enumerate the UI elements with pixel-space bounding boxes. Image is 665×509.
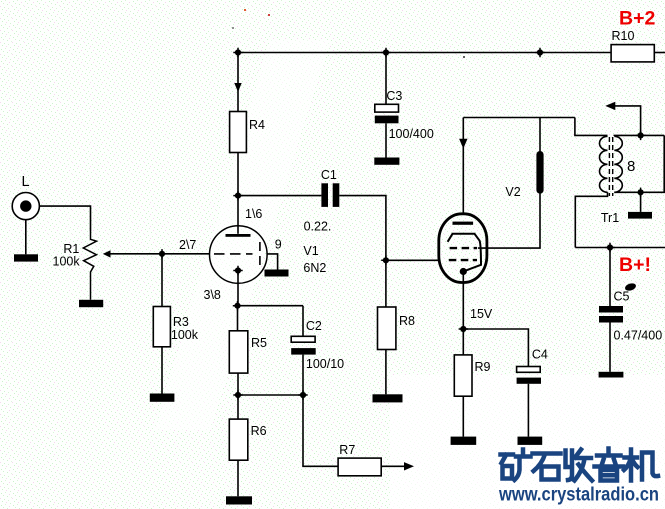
wire V2 plate rail bbox=[463, 117, 575, 119]
svg-text:V1: V1 bbox=[303, 244, 318, 258]
junction node V1 cathode bbox=[233, 266, 242, 275]
wire Tr1 primary top feed bbox=[575, 118, 608, 136]
arrow down to V2 plate bbox=[459, 139, 467, 149]
svg-text:C2: C2 bbox=[306, 319, 322, 333]
wire R3 to ground bbox=[161, 347, 163, 394]
arrow left at Tr1 bbox=[605, 102, 615, 110]
svg-text:R3: R3 bbox=[173, 315, 189, 329]
wire secondary ground stub bbox=[640, 192, 642, 212]
svg-text:C4: C4 bbox=[532, 348, 548, 362]
resistor R10 bbox=[611, 29, 654, 62]
svg-text:R5: R5 bbox=[251, 336, 267, 350]
wire C3 to ground bbox=[385, 123, 387, 157]
wire lower node row bbox=[238, 394, 304, 396]
svg-text:R6: R6 bbox=[251, 424, 267, 438]
junction node V2 cathode bbox=[459, 324, 468, 333]
svg-text:0.47/400: 0.47/400 bbox=[614, 329, 663, 343]
wire top rail right of R10 bbox=[654, 52, 665, 54]
svg-text:R7: R7 bbox=[339, 443, 355, 457]
junction node V2 grid tie bbox=[381, 256, 390, 265]
wire V1 plate lead bbox=[237, 196, 239, 234]
junction node secondary bottom bbox=[636, 188, 645, 197]
watermark crystalradio logo glyphs bbox=[501, 449, 659, 481]
capacitor C5 bbox=[599, 290, 662, 343]
wire cathode node to C4 bbox=[463, 329, 528, 367]
junction node R10 tap bbox=[535, 48, 544, 57]
junction node B+! C5 bbox=[605, 243, 614, 252]
V2 cathode dot bbox=[460, 268, 467, 275]
glyph shou bbox=[566, 450, 593, 481]
wire Tr1 secondary top bbox=[614, 134, 664, 137]
wire wiper to grid node bbox=[110, 253, 162, 255]
wire plate node to C1 bbox=[238, 195, 321, 197]
junction node C2-R7 bbox=[298, 390, 307, 399]
ground under C4 bbox=[518, 437, 543, 445]
tube V1 bbox=[179, 207, 282, 302]
svg-text:B+2: B+2 bbox=[619, 8, 655, 30]
ground Tr1 secondary bbox=[628, 212, 652, 219]
wire V2 plate lead bbox=[462, 118, 464, 214]
svg-text:R4: R4 bbox=[249, 118, 265, 132]
input jack L bbox=[12, 174, 39, 220]
wire C4 to ground bbox=[527, 384, 529, 437]
svg-text:V2: V2 bbox=[505, 185, 520, 199]
ground under C3 bbox=[374, 158, 399, 165]
V2 control grid dashed bbox=[449, 259, 477, 261]
ground under R1 bbox=[79, 300, 103, 307]
wire C2 top lead bbox=[302, 306, 304, 337]
wire screen bar to V2 bbox=[478, 194, 540, 249]
wire C5 top lead bbox=[609, 248, 611, 307]
ground under jack bbox=[14, 254, 38, 261]
ink blob near C5 bbox=[624, 282, 637, 292]
svg-text:C1: C1 bbox=[321, 168, 337, 182]
junction node R5-R6 bbox=[233, 390, 242, 399]
glyph yin bbox=[595, 449, 624, 481]
svg-text:Tr1: Tr1 bbox=[601, 211, 619, 225]
ground under R6 bbox=[226, 496, 252, 504]
svg-text:8: 8 bbox=[627, 158, 635, 175]
svg-text:www.crystalradio.cn: www.crystalradio.cn bbox=[498, 484, 659, 506]
ground under R3 bbox=[150, 394, 175, 402]
wire node to R7 bbox=[303, 395, 338, 466]
svg-text:C5: C5 bbox=[614, 290, 630, 304]
junction node cathode-R5 bbox=[233, 301, 242, 310]
junction node secondary top bbox=[636, 131, 645, 140]
svg-text:3\8: 3\8 bbox=[204, 288, 221, 302]
ground under R9 bbox=[451, 437, 477, 445]
white patch bottom right bbox=[390, 375, 665, 509]
wire R4 top feed bbox=[237, 53, 239, 112]
Tr1 primary winding bbox=[600, 136, 608, 192]
wire C5 bottom lead bbox=[609, 323, 611, 372]
wire Tr1 primary bottom bbox=[575, 192, 607, 247]
arrow R1 wiper bbox=[103, 250, 111, 257]
wire Tr1 secondary loop right bbox=[614, 135, 664, 192]
capacitor C3 bbox=[375, 89, 434, 141]
svg-text:C3: C3 bbox=[386, 89, 402, 103]
wire cathode node to C2 bbox=[238, 305, 304, 307]
resistor R9 bbox=[454, 355, 490, 396]
arrow right after R7 bbox=[404, 462, 414, 470]
screen grid bar bbox=[536, 151, 543, 194]
wire R8 to ground bbox=[385, 350, 387, 395]
wire cathode node to R9 bbox=[462, 329, 464, 355]
Tr1 secondary winding bbox=[614, 136, 622, 192]
glyph ji bbox=[624, 450, 658, 481]
wire top rail B+2 bbox=[238, 52, 611, 54]
V2 plate bar bbox=[453, 222, 474, 225]
wire grid node to R3 bbox=[161, 254, 163, 307]
glyph shi bbox=[533, 454, 561, 480]
arrow down to R4 bbox=[234, 83, 241, 92]
wire R4 bottom to plate node bbox=[237, 153, 239, 196]
ground V1 pin9 bbox=[265, 270, 289, 277]
wire C1 to R8 node bbox=[339, 196, 386, 307]
junction node C3 tap bbox=[381, 48, 390, 57]
wire pin 9 to ground bbox=[267, 254, 278, 270]
V2 screen grid dashed bbox=[450, 247, 478, 249]
resistor R5 bbox=[229, 331, 267, 373]
svg-text:15V: 15V bbox=[470, 307, 493, 321]
wire jack stem bbox=[25, 220, 27, 254]
svg-text:2\7: 2\7 bbox=[179, 238, 196, 252]
wire V2 cathode down bbox=[462, 272, 464, 330]
resistor R3 bbox=[153, 307, 198, 347]
svg-text:R10: R10 bbox=[612, 29, 635, 43]
resistor R4 bbox=[230, 112, 265, 153]
wire B+! rail bbox=[575, 247, 665, 249]
capacitor C4 bbox=[517, 348, 548, 384]
Tr1 core bbox=[608, 137, 610, 196]
svg-text:R8: R8 bbox=[399, 314, 415, 328]
wire screen bar top lead bbox=[539, 118, 541, 152]
glyph kuang bbox=[501, 450, 531, 481]
V2 suppressor chevron bbox=[448, 234, 481, 271]
svg-text:100/10: 100/10 bbox=[306, 357, 344, 371]
ground under C5 bbox=[599, 372, 624, 378]
transformer Tr1 bbox=[600, 136, 636, 225]
wire R9 to ground bbox=[462, 396, 464, 436]
svg-text:L: L bbox=[22, 174, 30, 190]
white streak overlay bbox=[155, 40, 330, 430]
svg-text:R9: R9 bbox=[475, 360, 491, 374]
wire R7 to arrow bbox=[381, 465, 404, 467]
svg-text:1\6: 1\6 bbox=[245, 207, 262, 221]
ground under R8 bbox=[373, 394, 403, 402]
svg-text:100/400: 100/400 bbox=[389, 127, 434, 141]
potentiometer R1 bbox=[53, 231, 97, 300]
wire V1 cathode down bbox=[237, 271, 239, 306]
junction node V1 plate bbox=[233, 191, 242, 200]
resistor R7 bbox=[338, 443, 381, 476]
wire secondary arrow branch bbox=[614, 106, 641, 135]
V1 cathode dashed bbox=[259, 242, 261, 266]
resistor R6 bbox=[229, 419, 266, 460]
wire cathode node to R5 bbox=[237, 306, 239, 331]
svg-text:9: 9 bbox=[275, 238, 282, 252]
resistor R8 bbox=[378, 307, 416, 350]
wire jack to R1 bbox=[40, 206, 91, 231]
wire C2 bottom lead bbox=[302, 355, 304, 395]
svg-text:100k: 100k bbox=[171, 328, 199, 342]
wire R5 to lower node bbox=[237, 373, 239, 395]
svg-text:6N2: 6N2 bbox=[303, 261, 326, 275]
tube V2 bbox=[439, 185, 521, 321]
capacitor C1 bbox=[304, 168, 340, 234]
wire grid node to V1 bbox=[162, 253, 209, 255]
wire C3 drop from rail bbox=[385, 53, 387, 105]
svg-text:100k: 100k bbox=[53, 255, 81, 269]
wire R6 to ground bbox=[237, 460, 239, 496]
junction node top of R4 bbox=[233, 48, 242, 57]
V1 grid dashed bbox=[214, 253, 253, 255]
wire lower node to R6 bbox=[237, 395, 239, 419]
V1 plate bar bbox=[226, 234, 251, 237]
svg-text:B+!: B+! bbox=[619, 254, 651, 276]
junction node V1 grid bbox=[157, 249, 166, 258]
wire R8 node to V2 grid bbox=[386, 259, 440, 261]
capacitor C2 bbox=[291, 319, 344, 371]
stray specks bbox=[244, 9, 246, 11]
svg-text:0.22.: 0.22. bbox=[304, 220, 332, 234]
